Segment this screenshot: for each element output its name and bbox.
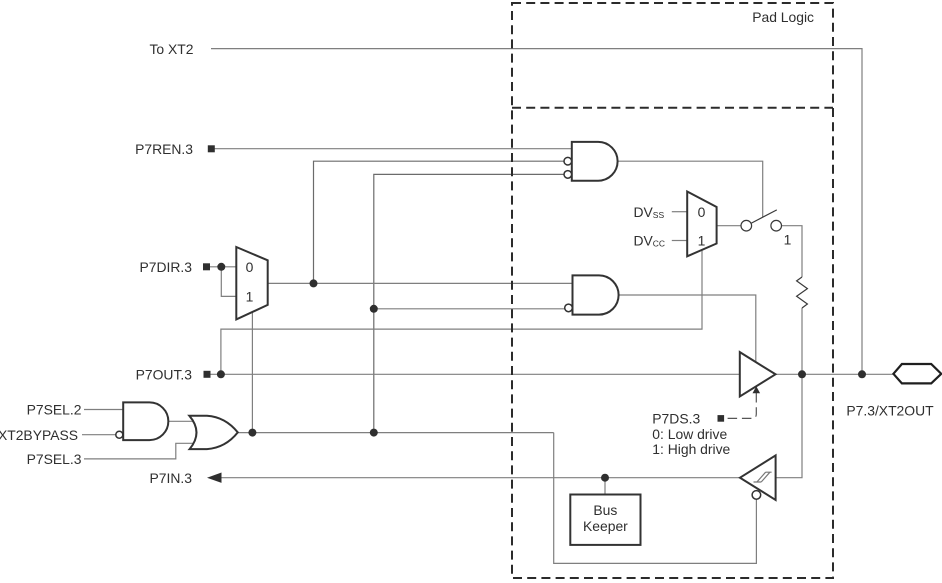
junction dot P7IN / bus keeper (601, 474, 609, 482)
arrowhead P7DS (753, 386, 761, 393)
svg-text:P7DIR.3: P7DIR.3 (140, 259, 193, 275)
inverter bubble U1 middle input (564, 157, 572, 165)
wire resistor R1 bottom through pad node to Schmitt U5 input (776, 308, 802, 478)
wire AND U4 output to driver U6 enable (619, 295, 756, 363)
svg-text:1: High drive: 1: High drive (652, 441, 730, 457)
svg-text:P7.3/XT2OUT: P7.3/XT2OUT (846, 403, 934, 419)
Bus Keeper block (570, 495, 640, 545)
inverter bubble U4 bottom input (565, 304, 573, 312)
inverter bubble U5 enable (752, 491, 761, 500)
wire P7IN.3 row from Schmitt U5 output (219, 477, 740, 479)
wire Bus Keeper stub (604, 478, 606, 495)
junction dot P7OUT branch (217, 370, 225, 378)
wire node to AND gate U4 inverted input (374, 308, 565, 310)
Pad Logic inner dashed divider (512, 107, 833, 109)
wire P7DIR.3 to mux U2 inputs 0 and 1 (210, 267, 236, 297)
junction dot OR output at vertical (370, 429, 378, 437)
svg-text:0: 0 (246, 259, 254, 275)
mux U3 (DVss/DVcc pull select) (687, 192, 716, 257)
svg-text:0: Low drive: 0: Low drive (652, 426, 727, 442)
wire mux U3 output to switch contact (717, 225, 741, 227)
switch S1 contact circle right (771, 220, 782, 231)
wire switch to resistor R1 top (782, 226, 802, 277)
svg-text:DVSS: DVSS (634, 204, 665, 220)
wire AND U8 output to OR U7 input (168, 420, 199, 422)
svg-text:Pad Logic: Pad Logic (752, 9, 814, 25)
svg-text:To XT2: To XT2 (149, 41, 193, 57)
wire XT2BYPASS to AND gate U8 inverted input (82, 434, 116, 436)
svg-text:0: 0 (698, 204, 706, 220)
P7DS.3 dashed connector with arrowhead into driver U6 (725, 393, 756, 418)
output driver U6 triangle (740, 352, 776, 396)
svg-text:P7SEL.2: P7SEL.2 (27, 402, 82, 418)
svg-text:P7DS.3: P7DS.3 (652, 411, 700, 427)
or-gate U7 (189, 416, 238, 449)
Pad Logic outer dashed boundary (512, 3, 833, 578)
wire OR gate U7 output row (238, 432, 554, 434)
svg-text:P7IN.3: P7IN.3 (150, 470, 193, 486)
svg-text:P7SEL.3: P7SEL.3 (27, 451, 82, 467)
svg-text:P7OUT.3: P7OUT.3 (136, 367, 193, 383)
svg-text:Keeper: Keeper (583, 518, 628, 534)
wire driver U6 output to pad (776, 373, 895, 375)
mux U2 (P7DIR 0/1 select) (236, 247, 267, 319)
wire U1 output to switch arm (617, 161, 762, 217)
and-gate U1 (P7REN logic) (572, 142, 618, 181)
junction dot OR gate output (248, 429, 256, 437)
svg-text:1: 1 (784, 232, 792, 248)
hysteresis symbol inside U5 (754, 472, 772, 482)
schmitt trigger U5 (input buffer, points left) (740, 455, 776, 500)
wire DVss stub to mux U3 input 0 (672, 211, 687, 213)
resistor R1 (pullup/pulldown) (797, 277, 808, 308)
terminal square P7DIR.3 (203, 263, 210, 270)
switch S1 arm (751, 210, 776, 223)
pad hexagon P7.3/XT2OUT (893, 364, 941, 383)
and-gate U8 (P7SEL.2 / XT2BYPASS) (123, 402, 168, 440)
svg-text:XT2BYPASS: XT2BYPASS (0, 427, 78, 443)
wire P7OUT.3 row to output driver U6 input (210, 373, 740, 375)
terminal square P7REN.3 (208, 145, 215, 152)
wire DVcc stub to mux U3 input 1 (672, 240, 687, 242)
wire P7SEL.2 to AND gate U8 (84, 409, 123, 411)
junction dot mux U2 output branch (310, 279, 318, 287)
terminal square P7OUT.3 (204, 371, 211, 378)
svg-text:1: 1 (246, 289, 254, 305)
arrowhead P7IN.3 output (207, 473, 222, 483)
wire OR output net down and around to Schmitt U5 enable bubble (554, 433, 757, 564)
junction dot driver output / resistor (798, 370, 806, 378)
wire P7REN.3 to AND gate U1 top input (213, 148, 572, 150)
wire mux U2 output row to AND gate U4 top input (268, 282, 573, 284)
terminal square P7DS.3 (718, 415, 725, 422)
svg-text:1: 1 (698, 233, 706, 249)
wire U1 bottom inverted input net down to OR gate output net (374, 174, 564, 432)
inverter bubble U8 bottom input (116, 431, 123, 438)
wire P7OUT node up and over to mux U3 select (221, 250, 702, 374)
switch S1 contact circle left (741, 220, 752, 231)
junction dot P7DIR branch (217, 263, 225, 271)
svg-text:P7REN.3: P7REN.3 (135, 141, 193, 157)
wire U1 middle inverted input from P7DIR mux output node (314, 161, 565, 283)
junction dot pad / To XT2 (858, 370, 866, 378)
wire P7SEL.3 jog to OR gate U7 lower input (84, 443, 198, 459)
and-gate U4 (direction/enable logic) (573, 275, 619, 314)
junction dot U4 inverted input branch (370, 305, 378, 313)
wire mux U2 select from OR output node (251, 313, 253, 433)
inverter bubble U1 bottom input (564, 171, 572, 179)
svg-text:Bus: Bus (593, 502, 617, 518)
svg-text:DVCC: DVCC (634, 233, 666, 249)
wire To XT2 net (horizontal then down to pad node) (211, 49, 862, 375)
